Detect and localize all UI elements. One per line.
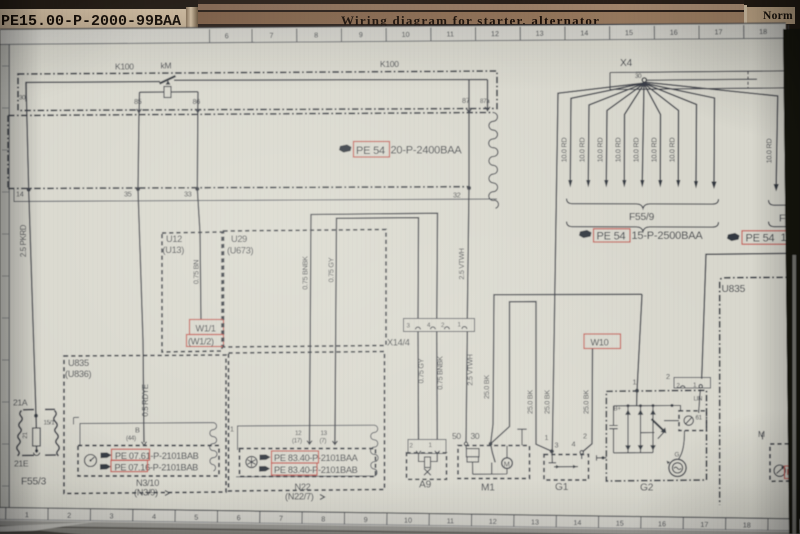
PE ref right label xyxy=(742,231,797,245)
wire X4 right 10.0 RD xyxy=(645,82,779,191)
svg-text:W1/1: W1/1 xyxy=(196,324,216,334)
PE ref 54.20 label xyxy=(354,142,463,158)
fuse 21 xyxy=(22,414,55,456)
svg-text:10.0 RD: 10.0 RD xyxy=(560,138,569,163)
label 21E xyxy=(14,459,29,469)
G1 pin labels xyxy=(545,432,588,450)
relay K100 housing box xyxy=(18,71,497,111)
svg-text:12: 12 xyxy=(489,517,497,526)
gauge icon N3/10 xyxy=(85,455,97,467)
svg-text:87: 87 xyxy=(462,96,470,105)
junction node 33 xyxy=(195,187,199,191)
harness box PE 54.20 xyxy=(8,112,498,208)
svg-text:30: 30 xyxy=(19,95,26,102)
svg-text:12: 12 xyxy=(295,430,302,437)
label F right xyxy=(779,214,785,225)
wire X4 fan 4 10.0 RD xyxy=(614,84,645,188)
wire X4 fan 6 10.0 RD xyxy=(644,84,662,188)
G1 battery cells xyxy=(549,451,582,468)
svg-text:10: 10 xyxy=(404,516,412,525)
alternator G2 box xyxy=(606,390,706,493)
svg-text:0.75 BNBK: 0.75 BNBK xyxy=(301,256,310,290)
M1 pin labels 50 30 xyxy=(452,431,480,441)
svg-text:kM: kM xyxy=(161,61,172,71)
svg-text:PE 83.40-P-2101BAB: PE 83.40-P-2101BAB xyxy=(274,465,358,475)
svg-text:U29: U29 xyxy=(231,234,247,244)
svg-text:13: 13 xyxy=(531,517,539,526)
M1 case ground xyxy=(517,429,526,445)
relay coil xyxy=(140,87,199,98)
svg-text:17: 17 xyxy=(700,520,708,529)
wire 25.0 BK G2 to M1.30 xyxy=(482,294,642,444)
svg-text:G: G xyxy=(675,452,680,459)
wire X4 fan 5 10.0 RD xyxy=(632,83,645,188)
svg-text:2: 2 xyxy=(583,432,587,441)
wire 0.75 BNBK to A9.1 xyxy=(436,332,445,441)
PE ref N22 row1 xyxy=(272,451,359,463)
svg-text:1: 1 xyxy=(545,433,549,442)
M1 solenoid xyxy=(466,446,479,475)
svg-text:16: 16 xyxy=(670,28,678,37)
svg-text:(17): (17) xyxy=(292,438,302,445)
svg-text:G1: G1 xyxy=(555,482,569,493)
N22 housing dashed box xyxy=(229,352,385,492)
svg-text:25.0 BK: 25.0 BK xyxy=(526,390,535,414)
svg-text:15/1: 15/1 xyxy=(44,420,56,427)
N22 dashed box xyxy=(240,449,376,477)
svg-text:32: 32 xyxy=(453,191,461,200)
starter M1 box xyxy=(458,446,530,494)
svg-text:5: 5 xyxy=(194,513,198,522)
svg-text:14: 14 xyxy=(16,190,24,199)
junction node G1 plus xyxy=(550,449,554,453)
svg-text:2.5 PKRD: 2.5 PKRD xyxy=(19,224,28,257)
hand icon N22 row2 xyxy=(259,466,270,472)
svg-text:86: 86 xyxy=(193,97,201,106)
svg-text:10.0 RD: 10.0 RD xyxy=(632,138,641,163)
G2 rectifier diodes xyxy=(625,406,656,453)
svg-text:K100: K100 xyxy=(115,62,134,72)
wire X4 fan 2 10.0 RD xyxy=(578,83,645,187)
wire 2.5 VTWH lower to M1.50 xyxy=(466,332,475,443)
svg-text:PE 07.16-P-2101BAB: PE 07.16-P-2101BAB xyxy=(115,463,199,473)
svg-text:20-P-2400BAA: 20-P-2400BAA xyxy=(391,145,463,157)
wire G2 B plus xyxy=(633,294,643,405)
wire 0.75 GY N22.13 to X14/4.3 xyxy=(327,218,419,444)
left ruler strip xyxy=(0,29,10,508)
svg-text:PE 54: PE 54 xyxy=(356,145,385,157)
wire 0.75 BN xyxy=(192,189,202,320)
pin numbers 14 35 33 32 xyxy=(16,189,461,199)
ground W10 xyxy=(584,334,621,349)
wire 0.5 RDYE xyxy=(138,189,150,443)
svg-text:(U836): (U836) xyxy=(65,369,92,379)
svg-text:0.5 RDYE: 0.5 RDYE xyxy=(141,384,150,416)
PE ref F55/9 label xyxy=(594,229,704,243)
svg-text:85: 85 xyxy=(134,97,142,106)
hand icon row2 xyxy=(100,464,111,470)
svg-text:PE 54: PE 54 xyxy=(746,233,775,245)
M1 pin 50 terminal xyxy=(464,442,467,445)
svg-text:15: 15 xyxy=(625,28,633,37)
svg-text:PE 54: PE 54 xyxy=(597,231,626,243)
svg-text:4: 4 xyxy=(152,512,156,521)
svg-text:17: 17 xyxy=(714,27,722,36)
svg-text:(U13): (U13) xyxy=(163,245,185,255)
wire 25.0 BK W10 to G1.2 xyxy=(580,349,593,454)
svg-text:10.0 RD: 10.0 RD xyxy=(765,139,774,164)
svg-text:A9: A9 xyxy=(419,480,432,491)
PE ref N22 row2 xyxy=(272,463,358,475)
svg-text:10: 10 xyxy=(402,30,410,39)
connector box U29 xyxy=(224,230,387,348)
wire LIN to offpage xyxy=(702,253,795,378)
G2 capacitor xyxy=(609,406,617,453)
svg-text:(44): (44) xyxy=(126,435,136,442)
svg-text:(7): (7) xyxy=(320,437,327,444)
wire contact to 87/87a xyxy=(174,80,488,112)
svg-text:G2: G2 xyxy=(640,483,654,494)
wire coil leg 85 xyxy=(138,92,141,114)
screen title bar xyxy=(0,0,800,29)
svg-text:0.75 BNBK: 0.75 BNBK xyxy=(436,356,445,390)
battery G1 box xyxy=(544,455,589,494)
wire X4 fan 7 10.0 RD xyxy=(644,84,680,188)
wire 0.75 GY to A9.2 xyxy=(417,332,426,441)
wire 25.0 BK X4 to G1 xyxy=(543,83,645,451)
svg-text:2: 2 xyxy=(67,511,71,520)
svg-text:M: M xyxy=(504,459,510,468)
control unit N3/10 inner frame xyxy=(74,417,218,471)
svg-text:13: 13 xyxy=(536,29,544,38)
svg-text:10.0 RD: 10.0 RD xyxy=(614,138,623,163)
svg-text:61: 61 xyxy=(696,415,703,422)
wire 2.5 PKRD xyxy=(19,82,36,415)
svg-text:F55/3: F55/3 xyxy=(21,477,47,488)
switch unit A9 xyxy=(407,453,447,491)
svg-text:F: F xyxy=(779,214,785,225)
svg-text:14: 14 xyxy=(573,518,581,527)
svg-text:B+: B+ xyxy=(614,406,622,413)
svg-text:15-P-2500BAA: 15-P-2500BAA xyxy=(632,230,704,242)
label F55/3 xyxy=(21,477,47,488)
svg-text:3: 3 xyxy=(555,441,559,450)
svg-text:0.75 GY: 0.75 GY xyxy=(327,257,336,282)
svg-text:14: 14 xyxy=(580,28,588,37)
svg-text:12: 12 xyxy=(491,29,499,38)
svg-text:21: 21 xyxy=(22,432,29,439)
node 30 X4 xyxy=(635,73,757,85)
N22 pins 12 13 xyxy=(292,430,337,445)
svg-text:10.0 RD: 10.0 RD xyxy=(596,138,605,163)
junction node 32 xyxy=(467,186,471,190)
chassis tie G1 G2 xyxy=(597,455,607,460)
svg-text:W10: W10 xyxy=(591,338,609,348)
PE ref N3/10 row2 xyxy=(111,460,198,472)
svg-text:(W1/2): (W1/2) xyxy=(188,337,214,347)
hand icon N22 row1 xyxy=(260,455,271,461)
svg-text:35: 35 xyxy=(124,190,132,199)
svg-text:U12: U12 xyxy=(166,234,182,244)
G2 rotor field xyxy=(641,419,667,439)
wire 25.0 BK M1.30 to G1 xyxy=(491,302,552,452)
svg-text:25.0 BK: 25.0 BK xyxy=(543,390,552,414)
pin B (44) xyxy=(126,426,147,446)
fuse block F55/3 fragment xyxy=(17,409,59,456)
svg-text:10.0 RD: 10.0 RD xyxy=(578,138,587,163)
svg-text:15: 15 xyxy=(616,519,624,528)
label K100 left xyxy=(115,61,171,72)
svg-text:F55/9: F55/9 xyxy=(629,212,655,223)
bottom ruler xyxy=(0,507,800,534)
G2 rails xyxy=(614,404,681,453)
svg-text:(N22/7): (N22/7) xyxy=(285,492,314,502)
junction node 14 xyxy=(27,188,31,192)
svg-text:7: 7 xyxy=(269,31,273,40)
svg-text:1: 1 xyxy=(25,510,29,519)
svg-text:6: 6 xyxy=(237,513,241,522)
harness pin strip xyxy=(14,188,497,201)
wire X4 fan 1 10.0 RD xyxy=(560,83,645,187)
svg-text:18: 18 xyxy=(759,27,767,36)
svg-text:11: 11 xyxy=(446,29,454,38)
wire coil leg 86 xyxy=(197,92,199,114)
svg-text:8: 8 xyxy=(321,514,325,523)
hand icon row1 xyxy=(101,453,112,459)
svg-text:1: 1 xyxy=(633,378,637,387)
PE ref F55/9 icon xyxy=(579,230,592,238)
svg-text:87a: 87a xyxy=(480,98,490,105)
svg-text:10.0 RD: 10.0 RD xyxy=(650,138,659,163)
wire X4 fan 3 10.0 RD xyxy=(596,84,645,188)
svg-text:30: 30 xyxy=(471,431,480,441)
G2 generator symbol xyxy=(667,431,687,477)
brace right F lower xyxy=(769,222,799,227)
connector X14/4 xyxy=(387,319,475,348)
wire 0.75 BNBK N22.12 to X14/4.4 xyxy=(301,213,438,443)
svg-text:13: 13 xyxy=(321,430,328,437)
svg-text:PE 83.40-P-2101BAA: PE 83.40-P-2101BAA xyxy=(274,453,359,463)
svg-text:1: 1 xyxy=(230,425,234,434)
star icon N22 xyxy=(246,456,257,467)
G2 regulator to rotor link xyxy=(664,420,679,422)
control unit U835 right xyxy=(720,277,796,505)
label 21A xyxy=(13,398,28,408)
svg-text:16: 16 xyxy=(658,519,666,528)
wire pin30 riser xyxy=(26,82,160,102)
svg-text:6: 6 xyxy=(225,31,229,40)
ground W1/1 xyxy=(187,320,224,347)
svg-text:(U673): (U673) xyxy=(227,246,254,256)
pin labels K100 xyxy=(19,95,490,107)
svg-text:(N3/9): (N3/9) xyxy=(134,488,158,498)
svg-text:M: M xyxy=(758,429,765,439)
label N3/10 xyxy=(134,478,170,498)
svg-text:U835: U835 xyxy=(68,358,89,368)
svg-text:21E: 21E xyxy=(14,459,29,469)
label N22 xyxy=(285,482,325,502)
svg-text:3: 3 xyxy=(110,511,114,520)
svg-text:18: 18 xyxy=(743,520,751,529)
wires through harness 35 33 32 xyxy=(138,111,469,189)
svg-text:PE 07.61-P-2101BAB: PE 07.61-P-2101BAB xyxy=(115,451,199,461)
svg-text:N3/10: N3/10 xyxy=(136,478,159,488)
PE ref right icon xyxy=(727,233,740,241)
solid box N22 xyxy=(230,425,378,477)
wire LIN to regulator xyxy=(694,389,703,413)
svg-text:X4: X4 xyxy=(620,58,633,69)
N3/10 dashed box xyxy=(78,446,219,477)
right screen bezel xyxy=(783,29,800,534)
svg-text:0.75 GY: 0.75 GY xyxy=(417,358,426,383)
switch unit A9 pin strip xyxy=(408,440,446,454)
wire X4 fan 9 xyxy=(644,83,717,189)
control unit box U835 left xyxy=(64,355,226,494)
PE ref 54.20 icon xyxy=(339,145,352,153)
svg-text:33: 33 xyxy=(184,189,192,198)
svg-text:10.0 RD: 10.0 RD xyxy=(668,138,677,163)
motor M right xyxy=(758,429,798,481)
svg-text:21A: 21A xyxy=(13,398,28,408)
svg-text:11: 11 xyxy=(447,516,455,525)
label F55/9 xyxy=(629,212,655,223)
brace F55/9 upper xyxy=(567,199,719,209)
terminal block X4 xyxy=(610,58,796,90)
G2 regulator xyxy=(679,411,707,431)
wire 2.5 VTWH upper xyxy=(457,188,469,319)
svg-text:2.5 VTWH: 2.5 VTWH xyxy=(457,248,466,279)
connector ticks 87/87a xyxy=(137,107,490,113)
svg-text:25.0 BK: 25.0 BK xyxy=(482,375,491,399)
M1 contact and motor xyxy=(473,444,513,474)
svg-text:2.5 VTWH: 2.5 VTWH xyxy=(466,354,475,385)
svg-text:B: B xyxy=(135,426,140,435)
connector box U12 xyxy=(162,232,222,352)
svg-text:9: 9 xyxy=(359,30,363,39)
svg-text:4: 4 xyxy=(572,440,576,449)
svg-text:2: 2 xyxy=(666,372,670,381)
PE ref N3/10 row1 xyxy=(112,449,199,461)
svg-text:50: 50 xyxy=(452,431,461,441)
svg-text:7: 7 xyxy=(279,514,283,523)
svg-text:8: 8 xyxy=(314,31,318,40)
svg-text:9: 9 xyxy=(364,515,368,524)
top ruler xyxy=(0,23,788,44)
brace right F upper xyxy=(769,200,799,205)
brace F55/9 lower xyxy=(567,222,719,232)
svg-text:K100: K100 xyxy=(380,59,399,69)
svg-text:M1: M1 xyxy=(481,483,495,494)
svg-text:0.75 BN: 0.75 BN xyxy=(192,260,201,284)
junction node M1.30 xyxy=(489,442,493,446)
G2 B+ label xyxy=(614,406,622,413)
label K100 center xyxy=(380,59,399,69)
connector 2pin at G2 xyxy=(666,372,711,390)
svg-text:30: 30 xyxy=(635,73,642,80)
svg-text:X14/4: X14/4 xyxy=(387,338,410,348)
wire X4 fan 8 xyxy=(644,83,698,188)
junction node 35 xyxy=(136,187,140,191)
relay switch blade xyxy=(160,76,176,85)
svg-text:25.0 BK: 25.0 BK xyxy=(582,390,591,414)
svg-text:U835: U835 xyxy=(722,284,746,295)
svg-text:LIN: LIN xyxy=(694,396,703,403)
